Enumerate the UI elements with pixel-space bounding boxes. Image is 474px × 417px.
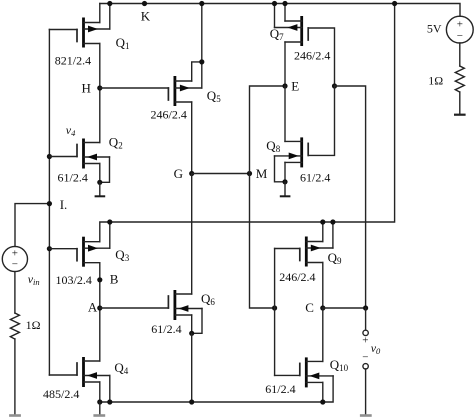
svg-text:K: K — [141, 8, 151, 23]
wire bottom ground rail — [100, 401, 323, 403]
wire 5V source to resistor R-right — [459, 43, 461, 66]
svg-text:E: E — [291, 79, 299, 94]
svg-text:61/2.4: 61/2.4 — [300, 171, 330, 185]
wire node I to vin source — [15, 204, 49, 247]
svg-text:246/2.4: 246/2.4 — [279, 270, 315, 284]
resistor 1ohm right — [455, 66, 464, 92]
transistor Q7 (PMOS, mirrored) — [272, 1, 335, 86]
svg-text:61/2.4: 61/2.4 — [265, 382, 295, 396]
wire vin to resistor R-left — [14, 272, 16, 313]
transistor Q1 (PMOS) — [49, 1, 112, 88]
ground below Q2 — [95, 182, 106, 197]
polarity vin source — [12, 247, 18, 270]
svg-text:+: + — [457, 19, 463, 31]
terminal vo- — [363, 364, 368, 369]
svg-text:C: C — [305, 300, 314, 315]
ground below 5V branch — [454, 114, 466, 116]
ground below vo — [360, 414, 372, 417]
ground below Q8 — [280, 182, 291, 198]
svg-text:61/2.4: 61/2.4 — [151, 322, 181, 336]
wire VDD top rail (node K) — [100, 4, 460, 17]
transistor Q5 (PMOS) — [168, 1, 204, 174]
svg-text:I.: I. — [60, 197, 68, 212]
wire VDD source rail (Q3/Q9 sources to top rail) — [100, 4, 395, 242]
node H — [97, 85, 168, 90]
svg-text:−: − — [457, 30, 463, 42]
wire vo- terminal to ground — [365, 369, 367, 414]
wire resistor left to ground — [14, 339, 16, 414]
svg-text:1Ω: 1Ω — [428, 74, 443, 88]
svg-text:G: G — [174, 166, 183, 181]
wire Q6 source to ground rail — [191, 333, 193, 402]
transistor Q3 (PMOS) — [47, 219, 113, 266]
transistor Q10 (NMOS) — [275, 357, 334, 404]
svg-text:246/2.4: 246/2.4 — [151, 108, 187, 122]
node A — [97, 305, 168, 310]
svg-text:−: − — [362, 351, 368, 363]
node B — [97, 277, 102, 282]
svg-text:H: H — [82, 81, 91, 96]
wire E-row to cross-couple column — [335, 86, 366, 308]
node K — [142, 1, 147, 6]
wire resistor right to ground — [459, 92, 461, 114]
source vin — [2, 246, 27, 271]
polarity vo terminals — [362, 335, 368, 364]
node M — [247, 171, 252, 176]
node G — [189, 171, 249, 176]
polarity 5V source — [457, 19, 463, 42]
svg-text:B: B — [110, 272, 119, 287]
node E — [282, 83, 337, 88]
svg-text:A: A — [88, 300, 98, 315]
transistor Q6 (NMOS) — [168, 290, 202, 336]
ground below vin branch — [9, 414, 21, 417]
svg-text:5V: 5V — [427, 22, 442, 36]
svg-text:−: − — [12, 259, 18, 271]
terminal vo+ — [363, 330, 368, 335]
svg-text:821/2.4: 821/2.4 — [55, 54, 91, 68]
wire node C to output terminal vo+ — [365, 308, 367, 330]
node C — [320, 305, 368, 310]
svg-text:103/2.4: 103/2.4 — [56, 273, 92, 287]
wire G column down to Q6 drain — [191, 174, 193, 295]
wire Q3 drain to Q4 drain (nodes B, A) — [99, 263, 101, 361]
wire C column down to Q10 drain — [322, 308, 324, 361]
wire node E to M column to Q9/Q10 gate line — [250, 86, 286, 308]
ground below bottom rail — [93, 402, 105, 417]
transistor Q9 (PMOS) — [275, 219, 336, 308]
svg-text:246/2.4: 246/2.4 — [294, 49, 330, 63]
svg-text:+: + — [362, 335, 368, 347]
resistor 1ohm left — [10, 313, 19, 339]
transistor Q2 (NMOS) — [47, 88, 110, 185]
transistor Q4 (NMOS) — [49, 357, 112, 405]
svg-text:1Ω: 1Ω — [26, 318, 41, 332]
source 5V — [446, 16, 473, 43]
svg-text:+: + — [12, 247, 18, 259]
wire Q9/Q10 shared gate line — [274, 249, 276, 376]
svg-text:485/2.4: 485/2.4 — [43, 387, 79, 401]
svg-text:M: M — [256, 166, 268, 181]
svg-text:61/2.4: 61/2.4 — [58, 171, 88, 185]
wire left gate bus (Q1-Q4 gates / vin node I) — [48, 30, 50, 376]
transistor Q8 (NMOS, mirrored) — [275, 86, 335, 184]
